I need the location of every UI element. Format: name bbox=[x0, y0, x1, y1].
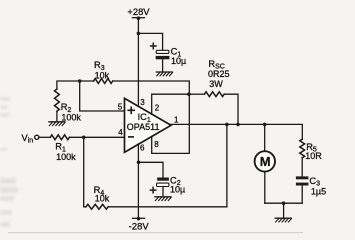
node +28V/C1 junction bbox=[137, 32, 141, 36]
motor M1 bbox=[255, 124, 275, 203]
node motor/output bbox=[263, 123, 267, 127]
wire R1 to pin 4 bbox=[69, 136, 125, 138]
resistor R2 bbox=[55, 89, 60, 111]
ground motor loop bbox=[275, 218, 291, 222]
wire node to RSC bbox=[191, 93, 205, 95]
svg-text:10µ: 10µ bbox=[170, 185, 185, 195]
svg-text:4: 4 bbox=[118, 128, 123, 137]
wire RSC right down to output row bbox=[224, 94, 238, 124]
input terminal Vin bbox=[35, 135, 39, 139]
wire C2 to ground bbox=[162, 187, 164, 197]
node A (inverting input) bbox=[82, 136, 86, 140]
node RSC/box/R3 bbox=[187, 92, 191, 96]
wire node A down to R4 bbox=[84, 137, 86, 207]
wire bottom loop bbox=[265, 202, 302, 204]
svg-text:0R25: 0R25 bbox=[208, 69, 230, 79]
node pin6/C2 bbox=[137, 161, 141, 165]
wire C1 to ground bbox=[162, 59, 164, 72]
svg-text:5: 5 bbox=[118, 102, 123, 111]
wire R5 to C3 bbox=[301, 158, 303, 177]
wire output row bbox=[171, 124, 302, 139]
wire stub to ground bbox=[283, 203, 285, 218]
svg-text:10R: 10R bbox=[305, 151, 322, 161]
wire R2 to ground bbox=[56, 111, 58, 122]
svg-text:10k: 10k bbox=[95, 70, 110, 80]
svg-text:2: 2 bbox=[155, 103, 160, 112]
scan line bottom bbox=[8, 231, 303, 234]
wire Vin to R1 bbox=[39, 136, 50, 138]
node RSC/output bbox=[236, 123, 240, 127]
resistor R4 bbox=[86, 204, 108, 209]
wire +28V rail down to pin 3 bbox=[137, 18, 139, 107]
ground R2 bbox=[49, 122, 65, 126]
svg-text:OPA511: OPA511 bbox=[127, 122, 160, 132]
wire R4 to feedback corner up to output bbox=[108, 124, 227, 206]
svg-text:M: M bbox=[260, 154, 271, 169]
svg-text:+28V: +28V bbox=[127, 6, 150, 17]
resistor R1 bbox=[50, 135, 69, 140]
wire junction to C1 bbox=[138, 33, 162, 50]
node ground stub bbox=[282, 201, 286, 205]
ground C1 bbox=[156, 72, 172, 76]
svg-text:8: 8 bbox=[154, 140, 159, 149]
capacitor C1 bbox=[151, 43, 170, 59]
wire R3 right to corner, down to RSC node bbox=[113, 81, 190, 94]
capacitor C2 bbox=[150, 178, 169, 193]
svg-text:6: 6 bbox=[140, 143, 145, 152]
wire R3 left segment to R2 top bbox=[57, 81, 94, 89]
wire C3 to bottom loop bbox=[301, 186, 303, 204]
wire to C2 bbox=[139, 162, 164, 177]
svg-text:100k: 100k bbox=[61, 112, 81, 122]
capacitor C3 bbox=[296, 176, 309, 185]
svg-text:10k: 10k bbox=[95, 193, 110, 203]
wire pin 6 to -28V terminal bbox=[137, 144, 139, 219]
ground C2 bbox=[155, 197, 171, 201]
svg-text:1: 1 bbox=[174, 115, 179, 124]
svg-text:3: 3 bbox=[140, 98, 145, 107]
- input marking bbox=[129, 136, 133, 138]
wire node to pin 5 bbox=[80, 81, 126, 111]
svg-text:-28V: -28V bbox=[129, 220, 150, 231]
node R2/R3/pin5 bbox=[78, 79, 82, 83]
op-amp U1 triangle bbox=[125, 98, 172, 152]
pins 2/8 strap box bbox=[152, 94, 190, 153]
scan smudges left edge bbox=[0, 97, 18, 227]
resistor RSC bbox=[204, 92, 224, 97]
svg-text:100k: 100k bbox=[56, 152, 76, 162]
supply terminal +28V bbox=[132, 16, 144, 20]
+ input marking bbox=[128, 107, 134, 113]
supply terminal -28V bbox=[133, 217, 145, 221]
node feedback bbox=[225, 123, 229, 127]
svg-text:3W: 3W bbox=[209, 79, 223, 89]
svg-text:1µ5: 1µ5 bbox=[311, 187, 326, 197]
resistor R5 bbox=[300, 139, 305, 158]
resistor R3 bbox=[94, 79, 113, 84]
svg-text:10µ: 10µ bbox=[171, 56, 186, 66]
